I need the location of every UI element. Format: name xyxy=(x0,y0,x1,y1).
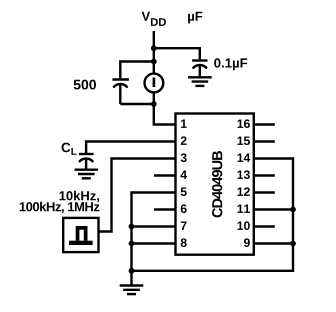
pin 4 label xyxy=(180,171,187,179)
ground under 0.1uF xyxy=(188,77,212,86)
net label CL xyxy=(62,143,77,155)
node bottom ground junction xyxy=(129,268,135,274)
wire pin 2 to CL xyxy=(86,142,175,154)
current meter I label xyxy=(153,78,156,88)
wire pin 15 stub xyxy=(254,140,275,142)
pin 1 label xyxy=(181,120,187,128)
current meter I1 xyxy=(145,74,164,93)
IC U1 CD4049UB body xyxy=(176,114,254,255)
pulse generator waveform symbol xyxy=(69,226,93,245)
IC U1 part number CD4049UB xyxy=(212,151,222,217)
pin 16 label xyxy=(238,119,250,128)
node A junction xyxy=(151,45,157,51)
value label 0.1uF xyxy=(214,58,247,70)
wire from node B to 500 capacitor xyxy=(120,62,154,79)
wire pin 3 to pulse generator xyxy=(99,159,176,232)
ground bottom xyxy=(120,286,144,295)
pin 9 label xyxy=(244,238,250,247)
wire pin 7 to ground bus xyxy=(132,225,176,227)
wire pin 11 to right bus xyxy=(254,208,293,210)
wire from node A to 0.1uF capacitor xyxy=(154,48,200,59)
capacitor C2 0.1uF xyxy=(192,61,207,77)
pin 5 label xyxy=(181,188,187,197)
net label VDD xyxy=(142,12,166,26)
wire pin 9 to right bus xyxy=(254,242,293,244)
pin 13 label xyxy=(238,170,250,179)
node C junction xyxy=(151,101,157,107)
pulse generator box xyxy=(63,218,98,252)
wire pin 12 stub xyxy=(254,191,275,193)
label frequencies line 1 xyxy=(60,191,100,202)
pin 11 label xyxy=(238,205,250,213)
wire pin 4 stub xyxy=(154,174,176,176)
pin 7 label xyxy=(181,222,187,230)
node pin8 junction xyxy=(129,241,135,247)
wire pin 8 to ground bus xyxy=(132,242,176,244)
wire meter bottom to node C to pin 1 xyxy=(154,93,176,124)
value label 500 xyxy=(74,80,96,90)
label uF xyxy=(188,12,202,24)
node pin9 junction xyxy=(290,241,296,247)
wire pin 16 stub xyxy=(254,123,275,125)
wire pin 13 stub xyxy=(254,174,275,176)
label frequencies line 2 xyxy=(20,202,100,213)
node pin11 junction xyxy=(290,207,296,213)
pin 3 label xyxy=(181,153,187,162)
capacitor CL xyxy=(79,154,94,169)
wire VDD supply vertical xyxy=(153,31,155,73)
wire pin 10 stub xyxy=(254,225,275,227)
node pin7 junction xyxy=(129,224,135,230)
node B junction xyxy=(151,59,157,65)
capacitor C1 500 xyxy=(112,80,128,105)
pin 10 label xyxy=(238,221,250,230)
wire ground stub below bottom node xyxy=(130,271,132,285)
pin 14 label xyxy=(238,154,251,162)
pin 15 label xyxy=(238,137,250,146)
wire pin 5 to ground bus xyxy=(132,193,176,271)
pin 6 label xyxy=(181,204,187,213)
pin 8 label xyxy=(181,238,187,247)
wire pin 6 stub xyxy=(154,208,176,210)
pin 2 label xyxy=(181,136,187,145)
pin 12 label xyxy=(238,187,250,196)
wire bottom ground return to pin 14 xyxy=(132,159,294,271)
ground under CL xyxy=(75,170,99,179)
wire 500 capacitor return to node C xyxy=(120,103,154,105)
